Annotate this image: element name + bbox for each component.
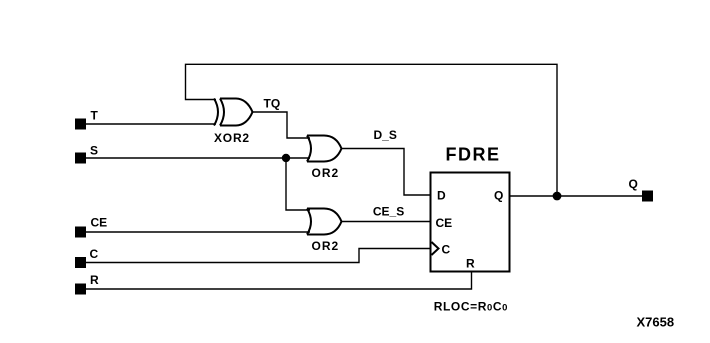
svg-text:R: R <box>466 257 475 271</box>
svg-text:OR2: OR2 <box>312 239 340 253</box>
svg-text:X7658: X7658 <box>637 314 675 329</box>
svg-text:T: T <box>91 109 99 123</box>
svg-text:C: C <box>442 243 451 257</box>
svg-text:D: D <box>437 189 446 203</box>
svg-text:XOR2: XOR2 <box>214 131 250 145</box>
svg-text:S: S <box>90 143 98 157</box>
svg-text:Q: Q <box>494 189 503 203</box>
svg-text:CE: CE <box>436 216 453 230</box>
svg-text:R: R <box>90 273 99 287</box>
svg-text:TQ: TQ <box>264 97 281 111</box>
svg-text:RLOC=R0C0: RLOC=R0C0 <box>434 300 508 314</box>
svg-text:C: C <box>90 247 99 261</box>
svg-text:OR2: OR2 <box>312 166 340 180</box>
svg-text:CE_S: CE_S <box>373 205 404 219</box>
svg-text:FDRE: FDRE <box>446 145 501 165</box>
svg-text:Q: Q <box>629 177 638 191</box>
svg-text:CE: CE <box>91 216 108 230</box>
svg-text:D_S: D_S <box>374 128 397 142</box>
